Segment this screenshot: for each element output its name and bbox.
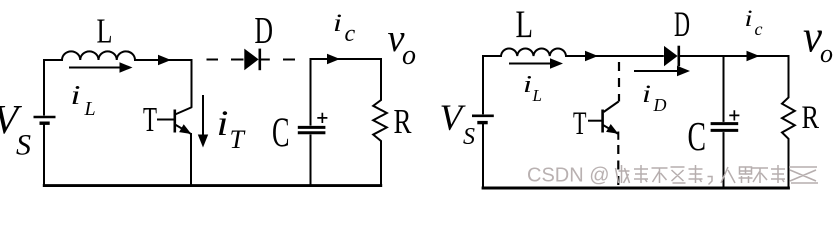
svg-text:L: L [516, 3, 534, 46]
svg-text:D: D [255, 10, 274, 52]
svg-text:i: i [71, 80, 81, 110]
svg-text:i: i [333, 10, 342, 37]
svg-text:c: c [755, 19, 763, 39]
svg-text:T: T [573, 106, 587, 142]
svg-text:D: D [674, 4, 690, 44]
svg-text:C: C [272, 111, 290, 157]
svg-text:C: C [688, 113, 707, 159]
svg-text:o: o [402, 40, 416, 71]
svg-text:L: L [532, 86, 542, 105]
svg-text:i: i [642, 81, 651, 108]
svg-text:D: D [653, 95, 667, 115]
svg-text:o: o [820, 39, 833, 68]
svg-text:L: L [97, 12, 113, 51]
svg-text:R: R [394, 102, 412, 141]
svg-text:T: T [143, 100, 157, 139]
svg-text:i: i [217, 103, 229, 143]
svg-text:i: i [745, 6, 753, 31]
svg-text:S: S [16, 129, 31, 162]
svg-text:i: i [523, 72, 532, 98]
svg-text:CSDN @: CSDN @ [527, 165, 610, 187]
svg-text:S: S [463, 124, 475, 150]
svg-text:R: R [802, 100, 820, 136]
svg-text:T: T [230, 125, 246, 154]
svg-text:L: L [84, 98, 96, 120]
svg-text:c: c [345, 21, 356, 47]
